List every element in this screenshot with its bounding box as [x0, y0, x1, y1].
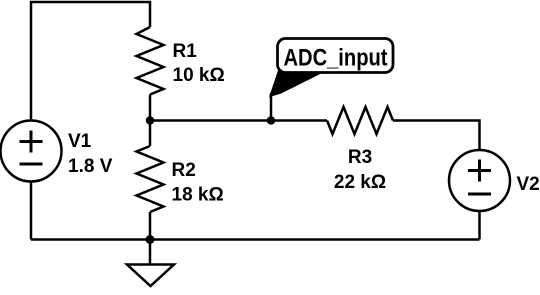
- resistor R1: [137, 27, 164, 95]
- resistor R3: [327, 107, 393, 134]
- label R1 value 10 kΩ: [173, 41, 225, 86]
- node: R1/R2/middle-wire junction: [146, 116, 154, 124]
- voltage source V1: [1, 121, 62, 182]
- svg-text:R3: R3: [348, 147, 372, 168]
- svg-text:R2: R2: [172, 160, 196, 181]
- wire: callout pointer lead: [270, 93, 273, 121]
- resistor R2: [137, 121, 164, 240]
- svg-text:V2: V2: [517, 174, 540, 195]
- svg-text:V1: V1: [68, 131, 92, 152]
- node A: ADC_input tap on middle rail: [267, 116, 275, 124]
- wire: middle rail from junction to R3: [150, 119, 327, 122]
- svg-text:10 kΩ: 10 kΩ: [173, 65, 225, 86]
- wire: top rail from V1 top to R1 top: [31, 2, 150, 121]
- wire: bottom rail: [31, 238, 480, 241]
- wire: R1 bottom lead to middle node: [149, 95, 152, 121]
- svg-text:22 kΩ: 22 kΩ: [334, 172, 386, 193]
- svg-text:ADC_input: ADC_input: [284, 45, 388, 72]
- svg-text:18 kΩ: 18 kΩ: [172, 185, 224, 206]
- node: ground junction on bottom rail: [146, 235, 155, 244]
- voltage source V2: [449, 150, 510, 211]
- wire: V2 bottom lead: [478, 211, 481, 240]
- label V1 value 1.8 V: [68, 131, 113, 177]
- svg-text:R1: R1: [173, 41, 198, 62]
- wire: V1 bottom lead: [30, 182, 33, 240]
- svg-text:1.8 V: 1.8 V: [68, 156, 113, 177]
- ground: [127, 240, 174, 287]
- label R3 value 22 kΩ: [334, 147, 386, 193]
- wire: R3 right lead to V2 top: [393, 121, 480, 151]
- label R2 value 18 kΩ: [172, 160, 224, 206]
- net flag ADC_input callout: [270, 39, 393, 97]
